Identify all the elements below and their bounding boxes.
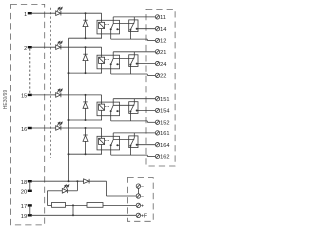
coil return bus	[68, 38, 70, 181]
terminal minus 2	[136, 194, 140, 198]
wire ch3 to diode cathode	[85, 95, 87, 102]
wire NC drop K1	[110, 29, 112, 39]
LED V1	[56, 7, 63, 15]
junction diode D3 anode to rail	[85, 119, 87, 121]
output contact NO point K2	[136, 63, 138, 65]
wire LED V2 to coil	[61, 46, 102, 48]
link minus terminals	[137, 188, 139, 194]
output contact NO point K4	[136, 144, 138, 146]
resistor R2	[87, 203, 103, 208]
junction bus ch2 rail	[68, 72, 70, 74]
relay K4 box	[97, 136, 120, 150]
wire R2 to terminal plus	[103, 204, 136, 206]
wire ch2 to diode cathode	[85, 47, 87, 54]
svg-text:22: 22	[160, 74, 166, 80]
terminal 24	[155, 61, 159, 65]
LED V5 supply indicator	[62, 185, 69, 193]
terminal 21	[155, 50, 159, 54]
freewheel diode D3	[83, 102, 88, 108]
LED V3	[56, 89, 63, 97]
coil return rail ch4	[69, 153, 103, 155]
dashed link terminal 2 to 15	[29, 49, 31, 94]
wire input 16 to LED	[32, 127, 56, 129]
terminal 161	[155, 131, 159, 135]
wire LED V5 cathode	[68, 190, 78, 192]
LED V2	[56, 41, 63, 49]
wire LED V4 to coil	[61, 127, 102, 129]
output contact NO point K1	[136, 28, 138, 30]
terminal 164	[155, 143, 159, 147]
terminal 152	[155, 120, 159, 124]
svg-text:15: 15	[21, 94, 27, 100]
wire to terminal 14	[137, 28, 156, 30]
wire output contact common riser K3	[133, 99, 135, 104]
terminal dot 17	[28, 204, 32, 206]
wire to terminal 12	[111, 38, 148, 40]
wire resistor junction to 19 wire	[72, 205, 74, 215]
wire NC drop output contact K3	[129, 112, 131, 121]
wire LED V3 to coil	[61, 94, 102, 96]
wire to terminal 164	[137, 144, 156, 146]
wire coil return ch2	[101, 63, 103, 73]
wire 19 to terminal +F	[32, 214, 136, 216]
terminal 12	[155, 38, 159, 42]
relay K4 coil	[99, 138, 105, 144]
wire LED branch vertical	[46, 191, 48, 206]
relay K2 indicator contact arm	[111, 58, 114, 64]
wire diode D1 anode to return rail	[85, 27, 87, 39]
wire ch1 to diode cathode	[85, 13, 87, 20]
contact NO point K2	[116, 63, 118, 65]
wire NC drop output contact K4	[129, 146, 131, 155]
mechanical link to output contact K4	[113, 139, 134, 141]
relay K3 coil diagonal	[99, 104, 105, 110]
terminal 22	[155, 73, 159, 77]
wire output contact common riser K4	[133, 133, 135, 138]
freewheel diode D1	[83, 20, 88, 26]
wire coil entry ch2	[101, 47, 103, 57]
svg-text:161: 161	[160, 131, 169, 137]
wire input 1 to LED	[32, 12, 56, 14]
link 17-19	[29, 205, 31, 215]
junction node ch2 diode tap	[85, 46, 87, 48]
svg-text:+F: +F	[141, 214, 147, 220]
relay K3 coil	[99, 104, 105, 110]
coil return rail ch1	[69, 37, 103, 39]
wire jog down to minus	[106, 181, 108, 196]
svg-text:11: 11	[160, 15, 166, 21]
wire coil return ch3	[101, 110, 103, 120]
terminal plus	[136, 203, 140, 207]
relay K4 coil diagonal	[99, 138, 105, 144]
relay K4 actuator linkage	[105, 140, 110, 142]
relay K4 indicator contact arm	[111, 139, 114, 145]
terminal 151	[155, 97, 159, 101]
wire to terminal 24	[137, 63, 156, 65]
wire coil entry ch4	[101, 128, 103, 138]
relay K3 indicator contact arm	[111, 105, 114, 111]
relay K1 box	[97, 20, 120, 34]
junction node ch3 diode tap	[85, 94, 87, 96]
svg-text:HE30/99: HE30/99	[3, 90, 9, 110]
relay K3 actuator linkage	[105, 105, 110, 107]
output contact box K2	[129, 55, 138, 67]
contact NO point K4	[116, 144, 118, 146]
mechanical link to output contact K2	[113, 57, 134, 59]
relay K2 actuator linkage	[105, 59, 110, 61]
contact NO point K3	[116, 110, 118, 112]
wire to terminal 21	[113, 51, 155, 53]
svg-text:162: 162	[160, 155, 169, 161]
svg-text:+: +	[141, 204, 144, 210]
relay K2 coil	[99, 57, 105, 63]
wire NC drop K3	[110, 111, 112, 121]
input terminal dot 16	[28, 127, 32, 129]
relay K3 box	[97, 102, 120, 116]
svg-text:−: −	[141, 184, 144, 190]
wire input 2 to LED	[32, 46, 56, 48]
junction bus ch3 rail	[68, 119, 70, 121]
coil return rail ch2	[69, 72, 103, 74]
output contact arm K4	[130, 138, 134, 146]
stub contact NO K4	[117, 144, 119, 146]
output contact NO point K3	[136, 110, 138, 112]
relay plug boundary left	[50, 8, 52, 158]
svg-text:17: 17	[21, 204, 27, 210]
wire output contact common riser K1	[133, 17, 135, 22]
svg-text:16: 16	[21, 127, 27, 133]
wire NC drop K4	[110, 145, 112, 155]
wire LED riser to 18 wire	[76, 181, 78, 191]
wire coil entry ch3	[101, 95, 103, 104]
svg-text:1: 1	[24, 12, 27, 18]
mechanical link to output contact K3	[113, 104, 134, 106]
output contact arm K2	[130, 57, 134, 65]
wire to terminal minus	[107, 195, 137, 197]
output contact box K4	[129, 136, 138, 148]
wire to terminal 162	[111, 154, 148, 156]
relay K1 indicator contact arm	[111, 23, 114, 29]
terminal 11	[155, 15, 159, 19]
terminal 154	[155, 108, 159, 112]
junction node ch1 diode tap	[85, 12, 87, 14]
output contact arm K1	[130, 22, 134, 30]
wire to terminal 22	[111, 73, 148, 75]
output contact arm K3	[130, 104, 134, 112]
relay K1 coil diagonal	[99, 22, 105, 28]
terminal 162	[155, 154, 159, 158]
wire to LED V5	[47, 190, 62, 192]
input terminal dot 15	[28, 94, 32, 96]
wire input 15 to LED	[32, 94, 56, 96]
stub contact NO K3	[117, 110, 119, 112]
junction between resistors	[72, 204, 74, 206]
wire NC drop output contact K1	[129, 30, 131, 39]
svg-text:154: 154	[160, 109, 169, 115]
terminal dot 18	[28, 180, 32, 182]
relay K1 coil	[99, 22, 105, 28]
svg-text:152: 152	[160, 121, 169, 127]
contact NO point K1	[116, 28, 118, 30]
freewheel diode D2	[83, 54, 88, 60]
svg-text:14: 14	[160, 27, 166, 33]
wire contact common riser K4	[112, 133, 114, 139]
junction LED riser to 18 wire	[76, 180, 78, 182]
wire to terminal 161	[113, 132, 155, 134]
svg-text:24: 24	[160, 62, 166, 68]
wire 18 to diode	[32, 180, 84, 182]
input terminal dot 2	[28, 46, 32, 48]
wire to terminal 154	[137, 110, 156, 112]
wire coil entry ch1	[101, 13, 103, 22]
module outline left terminal block	[11, 4, 45, 225]
junction bus ch4 rail	[68, 153, 70, 155]
terminal 14	[155, 27, 159, 31]
terminal dot 20	[28, 190, 32, 192]
LED V4	[56, 122, 63, 130]
wire to resistor R1	[47, 204, 51, 206]
svg-text:19: 19	[21, 214, 27, 220]
junction diode D2 anode to rail	[85, 72, 87, 74]
junction diode D1 anode to rail	[85, 37, 87, 39]
wire contact common riser K1	[112, 17, 114, 23]
svg-text:164: 164	[160, 143, 169, 149]
wire LED V1 to coil	[61, 12, 102, 14]
wire coil return ch1	[101, 29, 103, 39]
wire contact common riser K2	[112, 52, 114, 58]
wire diode D3 anode to return rail	[85, 108, 87, 120]
wire contact common riser K3	[112, 99, 114, 105]
stub contact NO K2	[117, 63, 119, 65]
module outline right terminal block	[146, 9, 175, 166]
relay K2 box	[97, 55, 120, 69]
coil return rail ch3	[69, 119, 103, 121]
wire coil return ch4	[101, 145, 103, 155]
relay K2 coil diagonal	[99, 57, 105, 63]
stub contact NO K1	[117, 28, 119, 30]
junction diode D4 anode to rail	[85, 153, 87, 155]
input terminal dot 1	[28, 12, 32, 14]
svg-text:12: 12	[160, 39, 166, 45]
output contact box K3	[129, 102, 138, 114]
svg-text:2: 2	[24, 46, 27, 52]
link 18-20	[29, 181, 31, 191]
protection diode D5	[84, 179, 90, 184]
output contact box K1	[129, 20, 138, 32]
svg-text:151: 151	[160, 97, 169, 103]
wire NC drop K2	[110, 64, 112, 74]
freewheel diode D4	[83, 135, 88, 141]
junction resistor tap on 19 wire	[72, 214, 74, 216]
wire to terminal 11	[113, 16, 155, 18]
wire to terminal 152	[111, 120, 148, 122]
junction node ch4 diode tap	[85, 127, 87, 129]
wire NC drop output contact K2	[129, 65, 131, 74]
wire diode to minus jog	[90, 180, 107, 182]
terminal minus 1	[136, 184, 140, 188]
mechanical link to output contact K1	[113, 23, 134, 25]
relay K1 actuator linkage	[105, 24, 110, 26]
resistor R1	[52, 203, 66, 208]
junction bus to 18 wire	[68, 180, 70, 182]
wire to terminal 151	[113, 98, 155, 100]
svg-text:20: 20	[21, 190, 27, 196]
svg-text:18: 18	[21, 180, 27, 186]
module outline power terminal block	[127, 178, 153, 222]
wire R1 to R2	[66, 204, 88, 206]
svg-text:21: 21	[160, 50, 166, 56]
terminal plus F	[136, 213, 140, 217]
svg-text:−: −	[141, 194, 144, 200]
wire diode D4 anode to return rail	[85, 141, 87, 154]
wire diode D2 anode to return rail	[85, 61, 87, 74]
terminal dot 19	[28, 214, 32, 216]
wire output contact common riser K2	[133, 52, 135, 57]
wire ch4 to diode cathode	[85, 128, 87, 135]
